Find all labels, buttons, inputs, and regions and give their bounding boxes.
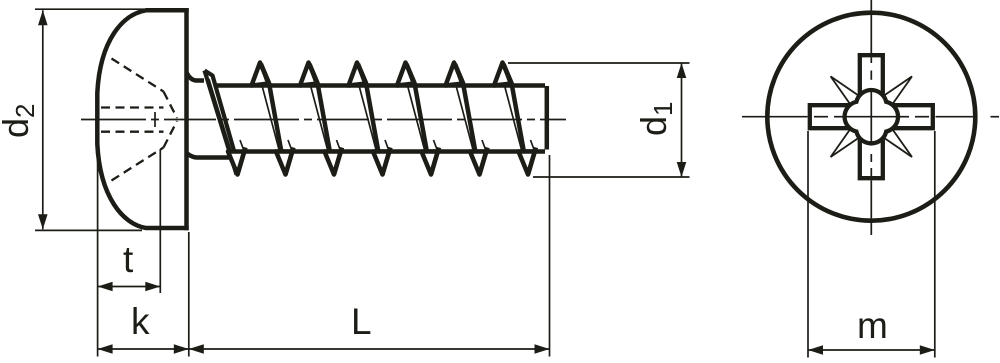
pozidriv wing spike lower-right [879, 135, 912, 157]
under-head fillet top [187, 73, 205, 81]
d1 extension line top [508, 62, 690, 64]
L dimension line [189, 348, 550, 350]
pozidriv centre quatrefoil [845, 90, 898, 143]
m extension line right [934, 131, 936, 358]
centerline of screw axis [81, 119, 566, 121]
pozidriv cross outline [810, 55, 933, 178]
svg-text:d2: d2 [0, 104, 40, 139]
svg-text:L: L [351, 301, 372, 342]
thread flank lines [261, 64, 286, 175]
pozidriv wing spike lower-left [831, 135, 864, 157]
recess hidden line upper cone [112, 59, 164, 92]
thread back helix thin lines [262, 86, 280, 152]
pozidriv wing spike upper-left [831, 76, 864, 98]
d1 dimension line [681, 63, 683, 177]
recess crosshair [846, 116, 898, 118]
recess hidden line upper inner [164, 92, 178, 119]
k dimension line [98, 348, 189, 350]
svg-text:t: t [123, 239, 134, 280]
thread root line top [215, 83, 545, 88]
d1 extension line bottom [533, 176, 690, 178]
m dimension line [808, 349, 935, 351]
recess hidden slot upper edge [101, 106, 164, 108]
recess hidden line lower cone [112, 148, 164, 181]
front view horizontal centerline [742, 116, 808, 118]
recess centre tick [154, 112, 156, 127]
recess hidden line lower inner [164, 121, 178, 148]
svg-text:d1: d1 [633, 102, 678, 137]
screw blunt end [545, 86, 550, 150]
L extension line right [549, 155, 551, 357]
pozidriv wing spike upper-right [879, 76, 912, 98]
pan head outline (side view) [184, 8, 189, 230]
head outline circle (front view) [767, 13, 975, 221]
d2 dimension line [42, 10, 44, 229]
t dimension line [98, 286, 161, 288]
front view vertical centerline [870, 0, 872, 53]
k extension line left [97, 146, 99, 357]
under-head fillet bottom [187, 153, 233, 158]
thread root line bottom [244, 149, 545, 154]
bottom thread crests [228, 152, 244, 175]
svg-text:m: m [857, 305, 888, 346]
recess hidden slot lower edge [101, 131, 164, 133]
d2 extension line bottom [35, 229, 142, 231]
top thread crests [252, 63, 270, 86]
svg-text:k: k [131, 301, 150, 342]
k/L shared extension line [188, 232, 190, 357]
m extension line left [807, 131, 809, 358]
t extension line [159, 149, 161, 293]
first thread start sliver [205, 71, 237, 175]
d2 extension line top [35, 8, 144, 10]
